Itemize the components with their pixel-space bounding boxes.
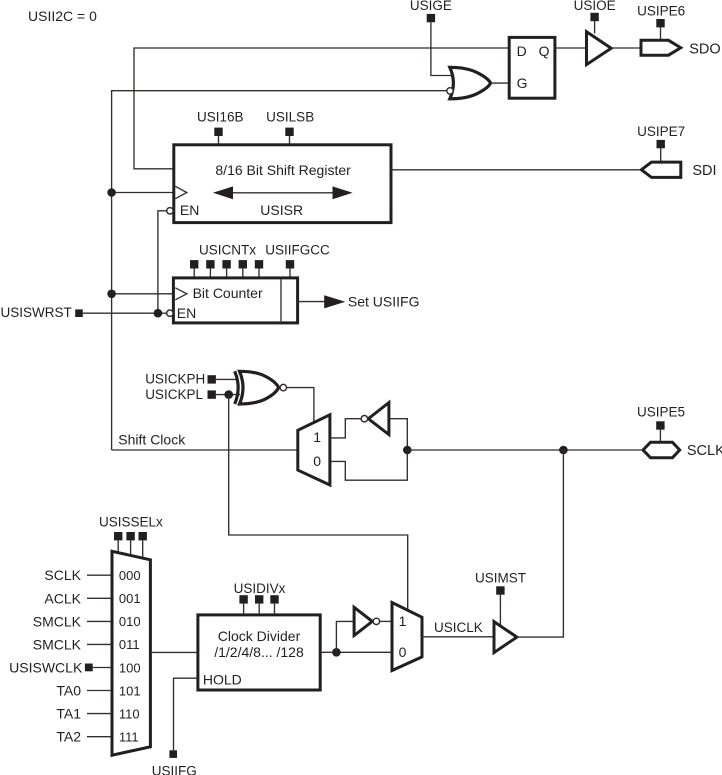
svg-text:USICLK: USICLK: [434, 620, 483, 635]
svg-text:USIDIVx: USIDIVx: [234, 581, 286, 596]
wires USISSELx to mux: [118, 540, 143, 558]
control square USISWRST: [75, 309, 83, 317]
wire USIOE to buffer: [594, 21, 596, 33]
svg-text:USII2C = 0: USII2C = 0: [28, 8, 97, 24]
bubble EN bit counter: [167, 310, 173, 316]
svg-text:100: 100: [119, 660, 141, 675]
svg-text:ACLK: ACLK: [44, 590, 81, 606]
wire data-out net to latch D: [134, 48, 509, 169]
svg-text:TA2: TA2: [56, 729, 81, 745]
svg-text:USIGE: USIGE: [410, 0, 452, 13]
junction USICKPL: [224, 390, 233, 399]
svg-text:SMCLK: SMCLK: [33, 636, 82, 652]
wire USICKPL to XNOR: [216, 394, 240, 396]
svg-text:USIOE: USIOE: [574, 0, 616, 13]
latch U-latch box: [509, 37, 555, 98]
control square USI16B: [214, 128, 222, 136]
svg-text:0: 0: [399, 644, 407, 660]
junction shift clock loop: [403, 446, 412, 455]
wire divider output: [320, 651, 392, 653]
bubble XNOR output: [280, 384, 286, 390]
wire USIPE6 to SDO pin: [660, 27, 662, 40]
svg-text:USISWCLK: USISWCLK: [9, 660, 83, 676]
svg-text:USIIFG: USIIFG: [152, 764, 197, 775]
svg-text:8/16 Bit Shift Register: 8/16 Bit Shift Register: [215, 162, 351, 178]
junction USISWRST: [154, 309, 163, 318]
wire USISWRST up to shift register EN: [158, 211, 167, 313]
wire USI16B to register: [218, 136, 220, 144]
svg-text:TA0: TA0: [56, 683, 81, 699]
clock divider box: [198, 615, 320, 690]
svg-text:110: 110: [119, 706, 140, 721]
wire shift clock mux output: [112, 449, 297, 451]
svg-text:G: G: [517, 75, 528, 91]
buffer SDO output (USIOE): [587, 32, 612, 65]
wires control squares to bit counter: [194, 269, 290, 277]
junction register clock: [107, 188, 116, 197]
bidirectional arrow USISR: [213, 186, 353, 199]
bubble EN shift register: [167, 208, 173, 214]
wire shift clock to bit counter clock: [112, 293, 174, 295]
control square USIIFG: [169, 750, 177, 758]
svg-text:/1/2/4/8... /128: /1/2/4/8... /128: [214, 644, 304, 660]
svg-text:Set USIIFG: Set USIIFG: [348, 294, 420, 310]
wires USIDIVx to divider: [244, 604, 275, 614]
control square USIOE: [590, 13, 598, 21]
svg-text:USIMST: USIMST: [475, 571, 526, 586]
control squares USISSELx: [114, 532, 147, 540]
mux shift clock (1/0): [298, 415, 330, 485]
svg-text:EN: EN: [180, 202, 199, 218]
wire shift clock to register clock: [112, 192, 174, 194]
mux USICLK (1/0): [392, 603, 422, 671]
svg-text:1: 1: [399, 613, 407, 629]
clock chevron bit counter: [175, 288, 187, 300]
svg-text:SCLK: SCLK: [44, 567, 81, 583]
wire divider output to inverter: [336, 621, 353, 652]
svg-text:SDI: SDI: [692, 163, 716, 179]
mux clock select USISSELx: [112, 551, 150, 755]
wire mux input 0 loop: [331, 450, 408, 480]
control square USILSB: [285, 128, 293, 136]
wire USIPE7 to SDI pin: [660, 148, 662, 161]
control square USIIFGCC: [286, 260, 294, 268]
svg-text:USIPE6: USIPE6: [637, 3, 685, 18]
svg-text:SMCLK: SMCLK: [33, 613, 82, 629]
svg-text:USISSELx: USISSELx: [99, 515, 163, 530]
clock source labels: [33, 567, 82, 745]
control square USICKPL: [208, 390, 216, 398]
control squares USIDIVx: [239, 595, 278, 603]
svg-text:000: 000: [119, 568, 141, 583]
control square USICKPH: [208, 375, 216, 383]
wire SDI to shift register: [391, 169, 641, 171]
svg-text:1: 1: [313, 429, 321, 445]
wire USIIFG to HOLD: [174, 678, 198, 750]
wires clock source stubs: [87, 575, 111, 737]
control square USIPE5: [656, 421, 664, 429]
svg-text:USIPE7: USIPE7: [637, 124, 685, 139]
wire mux to clock divider: [150, 651, 198, 653]
svg-text:Bit Counter: Bit Counter: [193, 285, 263, 301]
wire USICKPH to XNOR: [216, 378, 238, 380]
svg-text:111: 111: [119, 730, 139, 745]
svg-text:USIIFGCC: USIIFGCC: [265, 243, 330, 258]
svg-text:SCLK: SCLK: [687, 443, 722, 459]
wire USIPE5 to SCLK pin: [659, 430, 661, 442]
svg-text:010: 010: [119, 614, 141, 629]
or-gate latch-gate: [450, 67, 491, 99]
xnor-gate clock polarity: [235, 371, 279, 404]
svg-text:HOLD: HOLD: [203, 672, 242, 688]
inverter USICLK: [354, 607, 372, 635]
svg-text:USICKPL: USICKPL: [145, 387, 203, 402]
wire bit counter to Set USIIFG arrow: [298, 301, 325, 303]
wire inverter to mux 1 input: [380, 620, 392, 622]
bubble inverter USICLK output: [373, 618, 379, 624]
wire USICKPL to USICLK mux select: [229, 395, 408, 610]
svg-text:D: D: [517, 43, 527, 59]
svg-text:011: 011: [119, 637, 140, 652]
svg-text:TA1: TA1: [56, 706, 81, 722]
control squares USICNTx: [190, 260, 263, 268]
buffer USICLK to SCLK (USIMST): [494, 622, 517, 653]
junction divider output: [332, 648, 341, 657]
pin SDI: [641, 162, 680, 177]
bit counter box: [173, 278, 297, 323]
pin SCLK: [643, 442, 680, 457]
svg-text:USISWRST: USISWRST: [1, 305, 72, 320]
arrow Set USIIFG: [324, 295, 345, 308]
wire mux input 1 from inverter: [331, 419, 362, 438]
pin SDO: [641, 40, 681, 55]
wire inverter to SCLK junction: [389, 419, 407, 450]
svg-text:001: 001: [119, 591, 141, 606]
divider line bit counter: [280, 280, 282, 322]
wire XNOR to shift clock mux select: [287, 388, 314, 423]
clock chevron shift register: [175, 186, 187, 198]
wire SCLK line: [407, 449, 642, 451]
bubble inverter input side: [361, 416, 367, 422]
svg-text:101: 101: [119, 683, 141, 698]
wire USISWRST to EN inputs: [83, 312, 167, 314]
svg-text:USILSB: USILSB: [266, 110, 314, 125]
wire buffer output to SCLK line: [517, 450, 564, 637]
svg-text:USICNTx: USICNTx: [199, 243, 256, 258]
svg-text:Q: Q: [539, 43, 550, 59]
junction bit counter clock: [107, 290, 116, 299]
svg-text:0: 0: [313, 453, 321, 469]
mux code labels: [119, 568, 141, 745]
wire USICLK mux output: [422, 636, 494, 638]
shift register USISR box: [174, 145, 391, 223]
wire USIGE to OR gate: [431, 22, 451, 75]
wire latch Q to output buffer: [555, 47, 587, 49]
control square USIGE: [427, 14, 435, 22]
junction SCLK to USICLK buffer: [559, 446, 568, 455]
wire shift-clock net y91 to OR gate: [112, 91, 447, 450]
svg-text:USI16B: USI16B: [197, 110, 244, 125]
svg-text:Clock Divider: Clock Divider: [218, 628, 301, 644]
svg-text:Shift Clock: Shift Clock: [118, 432, 186, 448]
control square USISWCLK: [85, 664, 93, 672]
svg-text:USIPE5: USIPE5: [637, 404, 685, 419]
wire USILSB to register: [289, 136, 291, 144]
control square USIMST: [496, 586, 504, 594]
svg-text:USISR: USISR: [260, 202, 303, 218]
control square USIPE7: [657, 140, 665, 148]
svg-text:EN: EN: [177, 305, 196, 321]
wire OR output to latch G: [491, 82, 509, 84]
bubble OR inverted input: [447, 88, 453, 94]
control square USIPE6: [656, 19, 664, 27]
wire buffer to SDO pin: [611, 47, 641, 49]
svg-text:SDO: SDO: [689, 42, 720, 58]
wire USIMST to buffer: [499, 595, 501, 627]
svg-text:USICKPH: USICKPH: [145, 371, 205, 386]
inverter SCLK feedback: [368, 403, 389, 435]
